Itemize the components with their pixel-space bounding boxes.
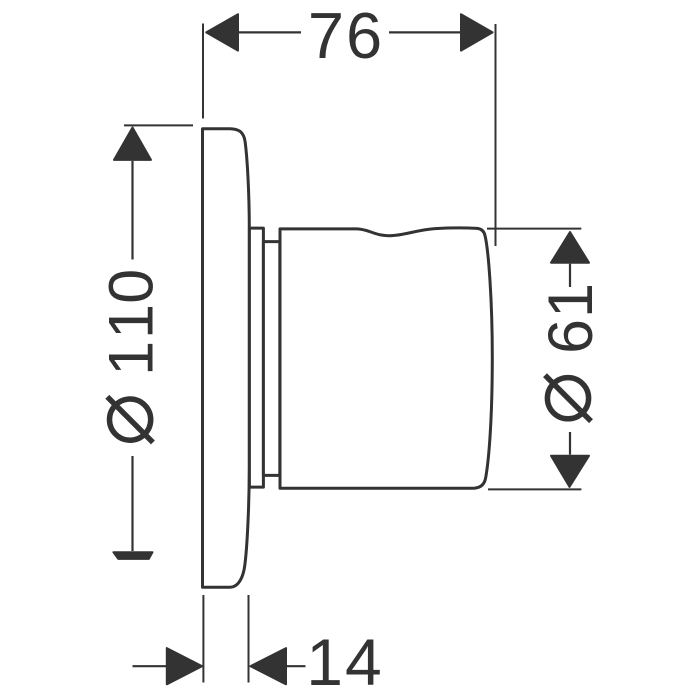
label diameter 61 (rotated) xyxy=(536,283,606,421)
extension line top (dim 61) xyxy=(487,228,581,230)
svg-text:14: 14 xyxy=(306,625,383,699)
sleeve ring inner xyxy=(263,242,279,476)
dimension line 61 lower stub xyxy=(569,432,571,455)
extension line left (dim 76) xyxy=(202,24,204,119)
arrowhead 76 right xyxy=(461,14,493,50)
extension line top (dim 110) xyxy=(124,124,193,126)
svg-text:1: 1 xyxy=(96,304,166,339)
arrowhead 14 left xyxy=(167,648,202,684)
sleeve ring outer xyxy=(249,228,263,487)
arrowhead 14 right xyxy=(251,648,287,684)
diameter symbol circle xyxy=(109,399,150,440)
arrowhead 110 top xyxy=(114,128,151,160)
svg-text:0: 0 xyxy=(96,269,166,304)
extension line right (dim 14) xyxy=(248,595,250,683)
arrowhead 76 left xyxy=(206,14,238,50)
lead line 14 left xyxy=(133,665,168,667)
dimension line 110 lower stub xyxy=(131,456,133,551)
diameter symbol circle xyxy=(547,378,588,419)
dimension line 76 left stub xyxy=(239,31,301,33)
dimension line 110 upper stub xyxy=(131,161,133,260)
dimension line 14 right stub xyxy=(286,665,306,667)
knob body xyxy=(280,228,492,488)
escutcheon plate (side profile) xyxy=(203,129,250,588)
dimension line 61 upper stub xyxy=(569,264,571,287)
diameter symbol slash xyxy=(545,375,591,421)
diameter symbol slash xyxy=(107,397,153,443)
svg-text:1: 1 xyxy=(96,341,166,376)
svg-text:6: 6 xyxy=(536,319,606,354)
extension line left (dim 14) xyxy=(202,595,204,683)
svg-text:1: 1 xyxy=(536,283,606,318)
svg-text:76: 76 xyxy=(308,0,384,72)
extension line bottom (dim 61) xyxy=(488,488,581,490)
label diameter 110 (rotated) xyxy=(96,269,166,443)
extension line right (dim 76) xyxy=(495,24,497,246)
flat terminator 110 bottom xyxy=(113,552,152,559)
arrowhead 61 bottom xyxy=(551,456,589,487)
arrowhead 61 top xyxy=(551,232,589,263)
dimension line 76 right stub xyxy=(389,31,461,33)
